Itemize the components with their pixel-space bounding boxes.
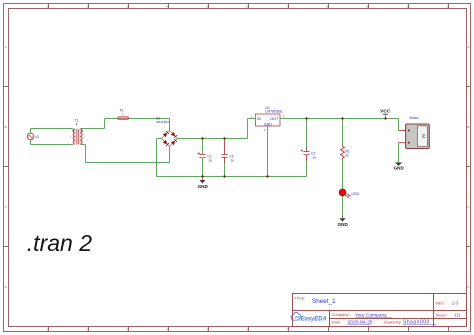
svg-text:1u: 1u — [231, 159, 235, 163]
svg-text:11: 11 — [446, 4, 449, 8]
svg-text:Date:: Date: — [332, 319, 342, 324]
svg-text:B: B — [467, 125, 469, 129]
svg-text:10: 10 — [406, 4, 410, 8]
svg-text:B: B — [5, 125, 7, 129]
svg-text:1/1: 1/1 — [455, 312, 461, 317]
svg-text:TITLE:: TITLE: — [295, 297, 306, 301]
svg-text:M: M — [420, 134, 426, 138]
svg-text:1k: 1k — [346, 154, 350, 158]
svg-text:GND: GND — [264, 122, 272, 126]
svg-text:Sheet_1: Sheet_1 — [312, 298, 336, 305]
svg-text:1.0: 1.0 — [452, 301, 459, 306]
svg-text:Company:: Company: — [332, 312, 350, 317]
svg-text:Drawn By:: Drawn By: — [384, 319, 402, 324]
svg-text:E: E — [76, 122, 78, 126]
svg-text:GND: GND — [338, 222, 349, 227]
svg-text:GND: GND — [394, 165, 405, 170]
svg-text:VCC: VCC — [380, 109, 391, 115]
svg-text:GND: GND — [198, 184, 209, 189]
svg-text:A: A — [5, 45, 7, 49]
svg-text:A: A — [467, 45, 469, 49]
svg-text:IN: IN — [257, 117, 261, 121]
svg-text:1u: 1u — [209, 159, 213, 163]
svg-text:Motor: Motor — [410, 116, 420, 120]
svg-text:1u: 1u — [312, 156, 316, 160]
svg-text:EasyEDA: EasyEDA — [301, 316, 327, 323]
svg-text:.tran 2: .tran 2 — [27, 230, 92, 256]
svg-text:OUT: OUT — [270, 117, 279, 121]
svg-text:Sheet:: Sheet: — [436, 312, 447, 317]
svg-text:F1: F1 — [120, 109, 124, 113]
svg-text:GBJ1504: GBJ1504 — [156, 120, 169, 124]
svg-text:V1: V1 — [35, 135, 39, 139]
svg-text:LED1: LED1 — [352, 192, 360, 196]
svg-text:REV:: REV: — [436, 302, 445, 306]
svg-text:LM7805EE: LM7805EE — [265, 110, 283, 114]
